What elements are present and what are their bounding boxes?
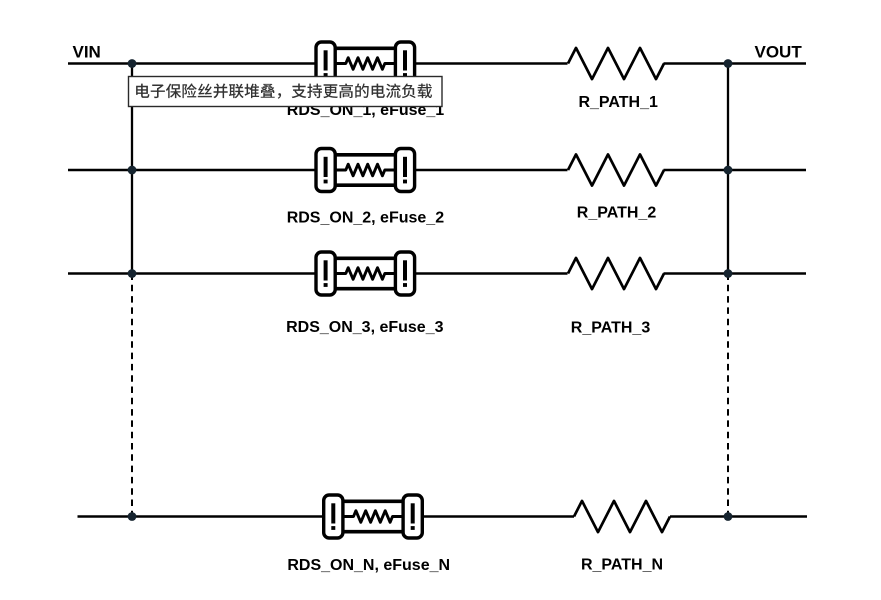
wire VIN bus vertical (solid, rows 1-3) (131, 64, 133, 274)
wire row 2 right segment (R_PATH_2 to output rail) (664, 169, 807, 171)
eFuse eFuse_1 inner fuse element zigzag (335, 58, 396, 70)
eFuse eFuse_3 right end cap (395, 252, 414, 295)
resistor R_PATH_3 zigzag (568, 258, 664, 289)
node junction VIN bus row N (128, 512, 137, 521)
svg-text:VOUT: VOUT (755, 43, 803, 62)
eFuse eFuse_3 right cap contact mark (403, 260, 407, 287)
eFuse eFuse_1 left end cap (316, 42, 335, 85)
eFuse eFuse_2 fuse symbol body top bar (333, 153, 397, 157)
svg-text:R_PATH_N: R_PATH_N (581, 556, 663, 573)
eFuse eFuse_N fuse symbol body top bar (341, 499, 405, 503)
wire row N left segment (input rail to eFuse_N) (78, 515, 325, 517)
node junction VIN bus row 2 (128, 166, 137, 175)
node junction VOUT bus row N (724, 512, 733, 521)
node junction VIN bus row 3 (128, 269, 137, 278)
callout tooltip box (129, 77, 443, 107)
eFuse eFuse_3 inner fuse element zigzag (335, 268, 396, 280)
eFuse eFuse_1 right cap contact mark (403, 50, 407, 77)
wire VOUT bus vertical (solid, rows 1-3) (727, 64, 729, 274)
wire VOUT bus vertical continuation (dashed, to row N) (727, 274, 729, 517)
svg-text:R_PATH_2: R_PATH_2 (577, 204, 657, 221)
wire row 1 left segment (input rail to eFuse_1) (68, 62, 316, 64)
eFuse eFuse_2 left end cap (316, 149, 335, 192)
eFuse eFuse_2 inner fuse element zigzag (335, 164, 396, 176)
eFuse eFuse_N fuse symbol body bottom bar (341, 530, 405, 534)
svg-text:RDS_ON_N, eFuse_N: RDS_ON_N, eFuse_N (287, 557, 450, 574)
svg-text:RDS_ON_3, eFuse_3: RDS_ON_3, eFuse_3 (286, 319, 444, 336)
wire row 3 right segment (R_PATH_3 to output rail) (664, 272, 807, 274)
svg-text:RDS_ON_2, eFuse_2: RDS_ON_2, eFuse_2 (287, 210, 445, 227)
wire row N middle segment (eFuse_N to R_PATH_N) (422, 515, 574, 517)
eFuse eFuse_3 fuse symbol body top bar (333, 256, 397, 260)
wire row 3 left segment (input rail to eFuse_3) (68, 272, 316, 274)
eFuse eFuse_2 right cap contact mark (403, 157, 407, 184)
eFuse eFuse_1 right end cap (395, 42, 414, 85)
eFuse eFuse_N inner fuse element zigzag (343, 511, 404, 523)
eFuse eFuse_2 fuse symbol body bottom bar (333, 183, 397, 187)
resistor R_PATH_2 zigzag (568, 154, 664, 185)
eFuse eFuse_2 right end cap (395, 149, 414, 192)
eFuse eFuse_N left end cap (324, 495, 343, 538)
resistor R_PATH_1 zigzag (568, 48, 664, 79)
eFuse eFuse_2 left cap contact mark (324, 157, 328, 184)
wire row 2 middle segment (eFuse_2 to R_PATH_2) (414, 169, 567, 171)
svg-text:R_PATH_1: R_PATH_1 (578, 94, 658, 111)
node junction VOUT bus row 3 (724, 269, 733, 278)
wire row 2 left segment (input rail to eFuse_2) (68, 169, 316, 171)
eFuse eFuse_1 fuse symbol body bottom bar (333, 77, 397, 81)
svg-text:R_PATH_3: R_PATH_3 (571, 320, 651, 337)
node junction VIN bus row 1 (128, 59, 137, 68)
wire row N right segment (R_PATH_N to output rail) (670, 515, 807, 517)
wire row 1 middle segment (eFuse_1 to R_PATH_1) (414, 62, 567, 64)
eFuse eFuse_3 fuse symbol body bottom bar (333, 287, 397, 291)
eFuse eFuse_1 fuse symbol body top bar (333, 46, 397, 50)
eFuse eFuse_N right end cap (403, 495, 422, 538)
eFuse eFuse_3 left cap contact mark (324, 260, 328, 287)
eFuse eFuse_N right cap contact mark (411, 503, 415, 530)
callout tooltip text (Chinese) (136, 83, 432, 98)
svg-text:VIN: VIN (73, 43, 101, 62)
wire row 3 middle segment (eFuse_3 to R_PATH_3) (414, 272, 567, 274)
eFuse eFuse_3 left end cap (316, 252, 335, 295)
wire VIN bus vertical continuation (dashed, to row N) (131, 274, 133, 517)
node junction VOUT bus row 1 (724, 59, 733, 68)
eFuse eFuse_1 left cap contact mark (324, 50, 328, 77)
eFuse eFuse_N left cap contact mark (331, 503, 335, 530)
resistor R_PATH_N zigzag (574, 501, 670, 532)
wire row 1 right segment (R_PATH_1 to output rail) (664, 62, 807, 64)
node junction VOUT bus row 2 (724, 166, 733, 175)
